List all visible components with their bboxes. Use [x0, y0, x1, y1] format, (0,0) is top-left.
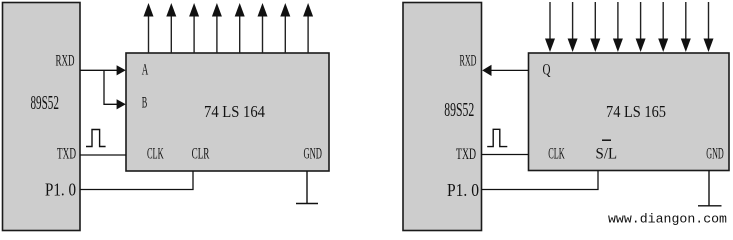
pin label S/L with overline: [596, 140, 618, 162]
svg-text:GND: GND: [706, 146, 724, 163]
svg-text:P1. 0: P1. 0: [447, 180, 479, 200]
IC U4 74LS165 (right shift register): [529, 53, 730, 171]
IC U3 89S52 (right MCU): [403, 3, 482, 231]
svg-text:89S52: 89S52: [30, 93, 59, 114]
svg-text:CLK: CLK: [548, 146, 565, 163]
wire TXD to CLK (left): [80, 154, 126, 156]
svg-text:S/L: S/L: [596, 146, 618, 163]
svg-text:Q: Q: [543, 62, 551, 79]
wire P1.0 to CLR: [80, 171, 193, 190]
svg-text:74 LS 164: 74 LS 164: [204, 102, 265, 121]
wire branch to B with arrowhead: [104, 70, 126, 109]
wire P1.0 to S/L: [482, 171, 599, 190]
svg-text:A: A: [142, 62, 149, 79]
svg-text:89S52: 89S52: [444, 100, 474, 121]
svg-text:www.diangon.com: www.diangon.com: [608, 211, 727, 226]
svg-text:B: B: [142, 95, 148, 112]
U2 output arrows Q0-Q7 (8 up arrows): [144, 3, 314, 53]
svg-text:CLR: CLR: [192, 146, 210, 163]
svg-text:RXD: RXD: [460, 53, 477, 70]
svg-text:P1. 0: P1. 0: [45, 180, 76, 200]
svg-text:GND: GND: [303, 146, 322, 163]
svg-text:CLK: CLK: [147, 146, 164, 163]
clock pulse symbol (left): [86, 130, 106, 147]
ground (left): [296, 171, 318, 204]
IC U2 74LS164 (left shift register): [126, 53, 329, 171]
svg-text:74 LS 165: 74 LS 165: [606, 102, 666, 121]
IC U1 89S52 (left MCU): [3, 3, 81, 231]
wire TXD to CLK (right): [482, 154, 529, 156]
svg-text:TXD: TXD: [57, 146, 76, 163]
clock pulse symbol (right): [487, 129, 507, 146]
wire RXD to A with arrowhead: [80, 65, 126, 75]
svg-text:TXD: TXD: [456, 146, 476, 163]
wire Q to RXD with arrowhead (right): [482, 65, 528, 76]
svg-text:RXD: RXD: [56, 53, 75, 70]
U4 input arrows D0-D7 (8 down arrows): [545, 2, 714, 52]
ground (right): [698, 171, 722, 206]
